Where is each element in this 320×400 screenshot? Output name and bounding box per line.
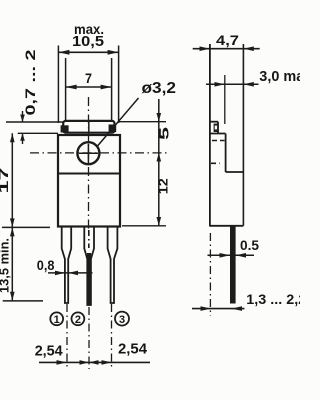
svg-text:10,5: 10,5 [72,34,104,50]
svg-text:3,0 max: 3,0 max [259,69,300,85]
svg-text:5: 5 [158,127,172,140]
svg-text:0.5: 0.5 [240,237,259,253]
svg-text:2,54: 2,54 [118,342,147,358]
svg-text:4,7: 4,7 [216,32,239,48]
svg-text:2: 2 [75,314,81,326]
svg-text:13,5 min.: 13,5 min. [0,238,12,293]
svg-text:0,7 ... 2: 0,7 ... 2 [22,49,38,115]
svg-text:7: 7 [85,70,92,86]
svg-text:3: 3 [119,314,125,326]
svg-text:12: 12 [156,178,170,194]
svg-text:2,54: 2,54 [35,344,63,360]
svg-text:ø3,2: ø3,2 [142,80,177,97]
svg-text:1: 1 [54,314,60,326]
svg-text:17: 17 [0,168,11,194]
svg-text:1,3 ... 2,2: 1,3 ... 2,2 [246,291,300,307]
svg-text:0,8: 0,8 [37,257,55,273]
